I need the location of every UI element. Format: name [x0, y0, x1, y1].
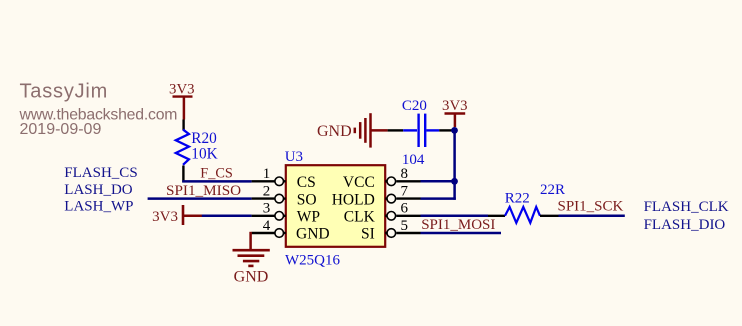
wire pin 6 to R22 — [421, 215, 489, 218]
svg-text:LASH_DO: LASH_DO — [64, 182, 133, 198]
pin 7 HOLD — [332, 183, 421, 208]
wire 3V3 to R20 — [182, 120, 184, 131]
svg-text:CS: CS — [297, 174, 316, 191]
svg-text:R22: R22 — [505, 190, 530, 206]
svg-text:22R: 22R — [540, 182, 565, 198]
svg-text:CLK: CLK — [344, 209, 376, 226]
svg-text:5: 5 — [401, 218, 409, 234]
wire R20 to pin1 corner — [182, 166, 184, 183]
resistor R20 — [176, 130, 218, 165]
svg-text:W25Q16: W25Q16 — [285, 253, 340, 269]
wire F_CS net to pin 1 — [182, 180, 251, 183]
svg-text:TassyJim: TassyJim — [20, 81, 109, 103]
wire SPI1_MISO to pin 2 — [148, 197, 252, 200]
wire ground to C20 — [388, 129, 404, 131]
wire R22 to SPI1_SCK — [559, 215, 625, 218]
wire C20 to 3V3 junction — [439, 129, 454, 131]
svg-text:10K: 10K — [191, 146, 217, 163]
svg-text:3V3: 3V3 — [169, 82, 194, 98]
wire pin 5 SPI1_MOSI — [421, 232, 502, 235]
svg-text:GND: GND — [317, 123, 352, 140]
svg-text:7: 7 — [401, 183, 409, 199]
svg-text:U3: U3 — [285, 149, 303, 165]
svg-text:F_CS: F_CS — [200, 166, 233, 182]
pin 4 GND — [263, 218, 330, 243]
capacitor C20 — [402, 98, 439, 168]
junction VCC net top — [451, 127, 458, 134]
svg-text:4: 4 — [263, 218, 271, 234]
svg-text:R20: R20 — [191, 130, 217, 147]
wire vertical VCC net — [453, 130, 456, 199]
svg-text:SI: SI — [361, 226, 375, 243]
pin 6 CLK — [344, 201, 421, 226]
svg-text:FLASH_CLK: FLASH_CLK — [644, 199, 729, 215]
pin 1 CS — [252, 166, 316, 191]
wire pin 4 to ground — [252, 232, 275, 234]
pin 8 VCC — [343, 166, 421, 191]
power port 3V3 (pin 3 net) — [152, 205, 202, 225]
pin 2 SO — [252, 183, 317, 208]
svg-text:8: 8 — [401, 166, 409, 182]
op IC U3 body — [285, 149, 385, 269]
svg-text:FLASH_CS: FLASH_CS — [64, 165, 137, 181]
svg-text:SPI1_MISO: SPI1_MISO — [166, 182, 241, 199]
pin 3 WP — [252, 201, 320, 226]
svg-text:2019-09-09: 2019-09-09 — [20, 121, 102, 138]
wire pin 8 to junction — [421, 180, 455, 183]
ground GND (near C20) — [317, 113, 388, 147]
svg-text:SPI1_MOSI: SPI1_MOSI — [421, 217, 495, 233]
svg-text:SPI1_SCK: SPI1_SCK — [558, 199, 624, 215]
wire pin 7 to vertical — [421, 197, 456, 200]
svg-text:3: 3 — [263, 201, 271, 217]
svg-text:GND: GND — [296, 226, 330, 243]
svg-text:FLASH_DIO: FLASH_DIO — [644, 217, 726, 233]
power port 3V3 (top, R20 net) — [169, 82, 194, 120]
svg-text:1: 1 — [263, 166, 271, 182]
svg-text:2: 2 — [263, 183, 271, 199]
svg-text:VCC: VCC — [343, 174, 375, 191]
svg-text:3V3: 3V3 — [442, 98, 467, 114]
svg-text:104: 104 — [402, 152, 425, 168]
svg-text:C20: C20 — [402, 98, 427, 114]
junction pin 8 — [451, 178, 458, 185]
ground GND (pin 4) — [233, 232, 270, 286]
svg-text:6: 6 — [401, 201, 409, 217]
power port 3V3 (right) — [442, 98, 467, 127]
svg-text:WP: WP — [297, 209, 320, 226]
svg-text:SO: SO — [297, 191, 317, 208]
pin 5 SI — [361, 218, 420, 243]
svg-text:HOLD: HOLD — [332, 191, 375, 208]
svg-text:3V3: 3V3 — [152, 209, 178, 225]
svg-text:LASH_WP: LASH_WP — [64, 199, 133, 215]
wire 3V3 to pin 3 — [202, 215, 252, 218]
resistor R22 — [488, 182, 565, 223]
svg-text:GND: GND — [234, 268, 269, 285]
